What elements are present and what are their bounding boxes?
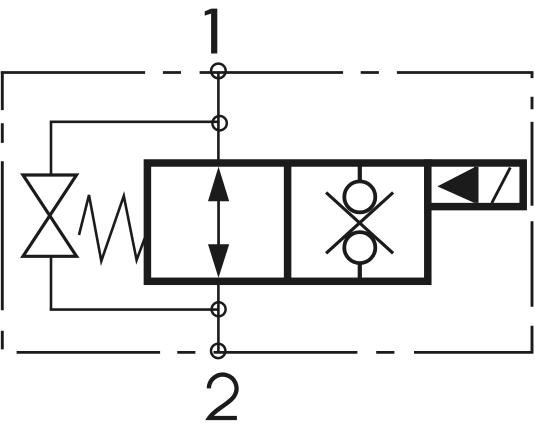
node circle N4 (port 2 on enclosure bottom)	[211, 344, 225, 358]
solenoid slash (proportional stroke)	[492, 168, 511, 204]
double arrow (open position, left cell)	[208, 167, 229, 278]
enclosure top border (dash-dot)	[1, 71, 534, 74]
wire: relief valve outlet vertical	[50, 256, 53, 309]
port label 1	[205, 9, 218, 54]
wire: pilot line horizontal (N2 to left)	[51, 121, 220, 124]
solenoid triangle (armature)	[437, 168, 474, 203]
solenoid divider	[474, 167, 479, 203]
wire: relief return horizontal (to N3)	[50, 308, 219, 311]
valve position divider	[284, 163, 292, 281]
enclosure right border (dash-dot)	[531, 72, 534, 354]
valve body rectangle (2/2 cartridge)	[147, 163, 427, 281]
X cross over check circles	[326, 193, 393, 254]
wire: port 2 line (body bottom through N3 and N4)	[217, 280, 220, 352]
spring for relief valve V1	[79, 195, 147, 261]
wire: pilot line vertical (down to relief valve V1)	[50, 121, 53, 176]
check-valve circles (closed position, right cell)	[344, 165, 375, 279]
wire: port 1 line (node N1 down to valve body top)	[217, 73, 220, 165]
node circle N1 (port 1 on enclosure top)	[211, 64, 226, 79]
node circle N2 (pilot tap)	[212, 116, 226, 130]
node circle N3 (drain tap)	[212, 302, 226, 316]
enclosure left border (dash-dot)	[1, 72, 4, 350]
relief valve V1 (bowtie symbol)	[23, 175, 77, 256]
enclosure bottom border (dash-dot)	[17, 351, 534, 354]
port label 2	[209, 375, 237, 418]
solenoid box Y1	[428, 163, 523, 207]
